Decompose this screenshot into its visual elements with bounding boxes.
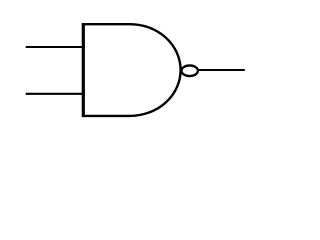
inversion bubble [182,65,198,76]
wire output Y [199,69,245,71]
wire input B [26,93,85,95]
NAND gate U1 body: top edge, arc, bottom edge [83,24,181,116]
wire input A [26,46,85,48]
NAND gate U1 left edge [82,23,85,117]
